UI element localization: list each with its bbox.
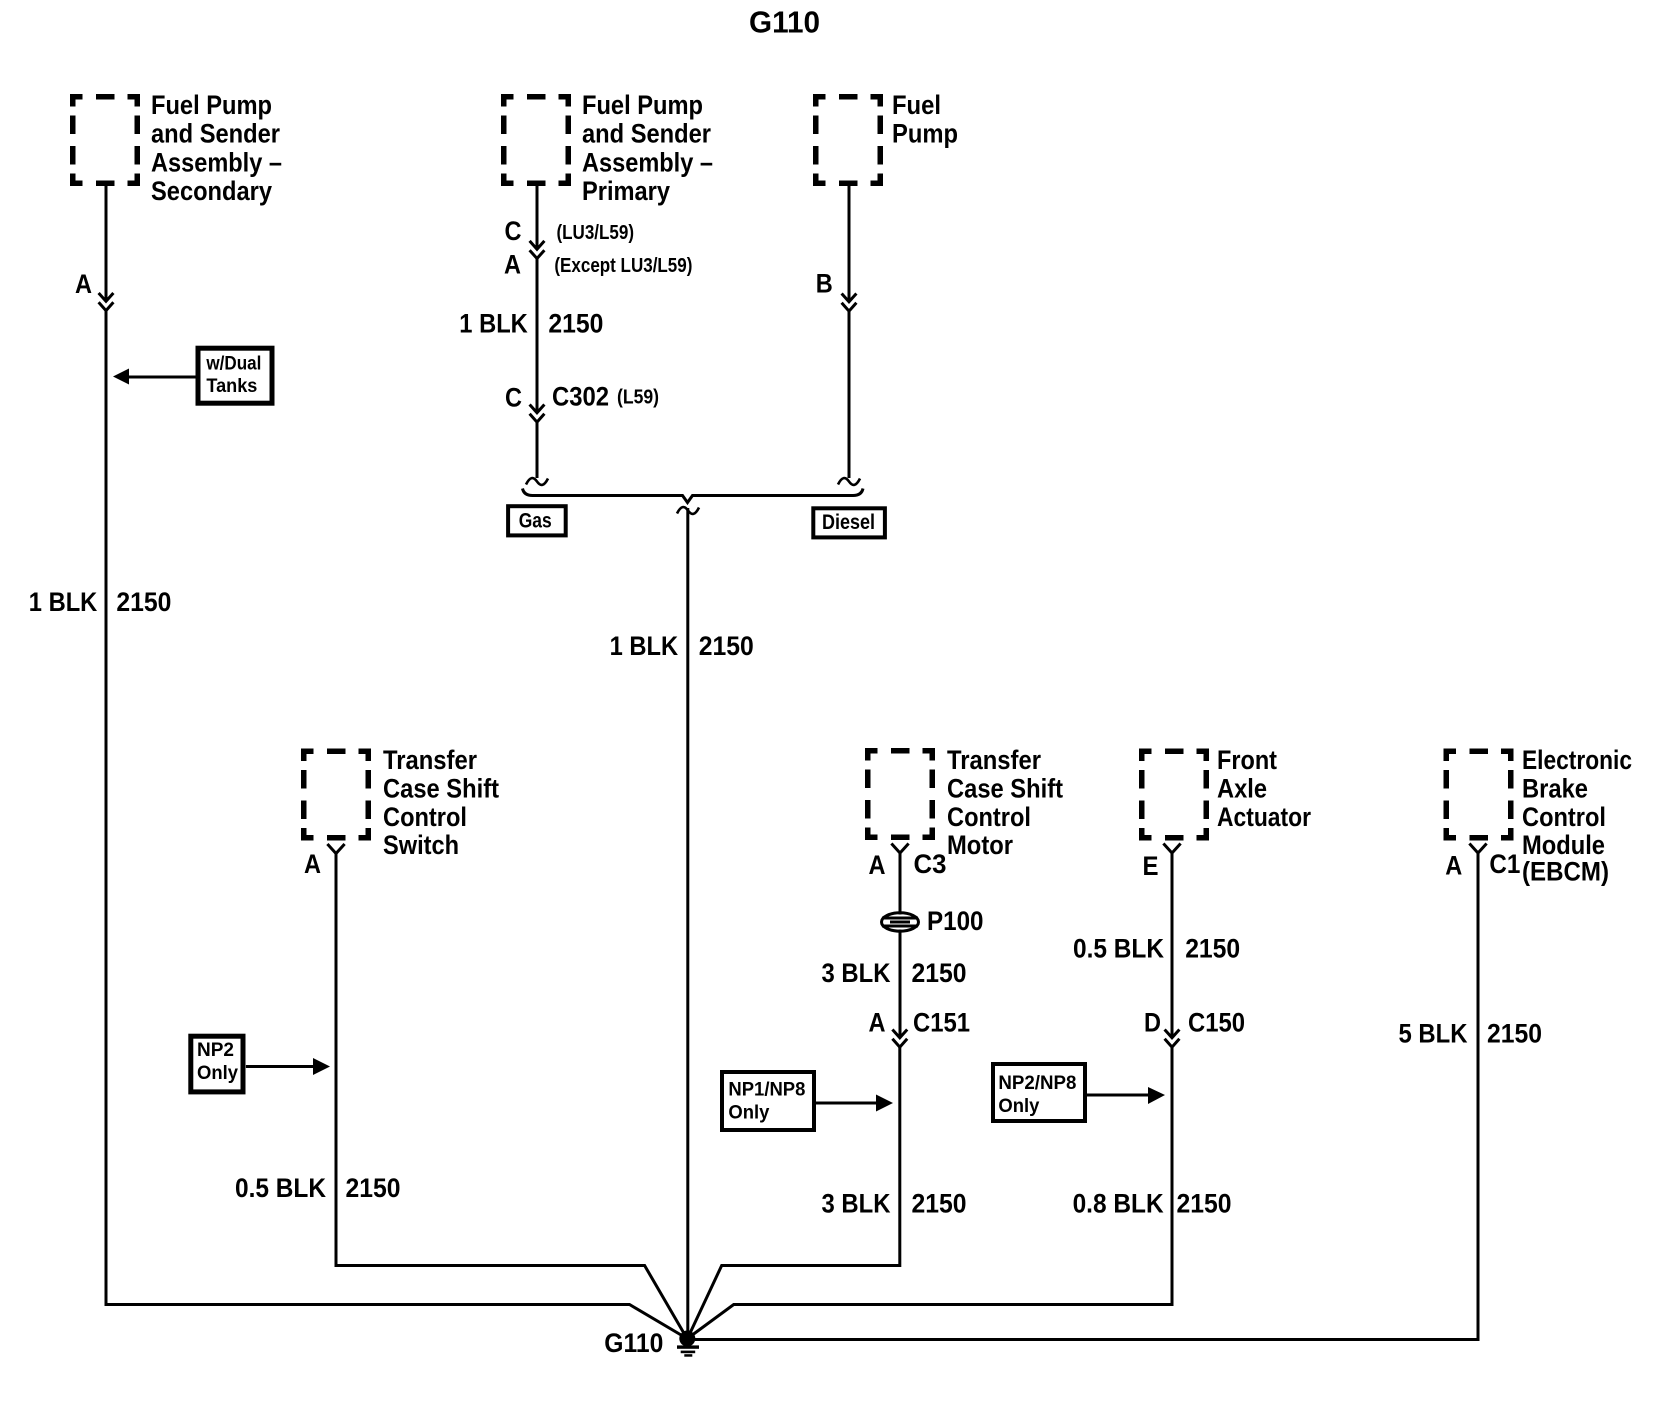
svg-text:1 BLK: 1 BLK [29,587,98,617]
svg-text:and Sender: and Sender [582,119,711,149]
svg-text:(L59): (L59) [617,387,659,409]
connector chevrons on diesel wire [842,294,857,312]
svg-text:Assembly –: Assembly – [582,147,713,177]
transfer case shift control switch (dashed box) [301,749,371,841]
svg-text:Assembly –: Assembly – [151,147,282,177]
svg-text:Axle: Axle [1217,773,1267,803]
wire: primary fuel pump ground upper segment [536,186,539,250]
svg-text:A: A [1445,851,1462,881]
svg-text:w/Dual: w/Dual [206,354,262,375]
svg-text:Motor: Motor [947,830,1013,860]
svg-text:Actuator: Actuator [1217,802,1311,832]
svg-text:3 BLK: 3 BLK [822,958,891,988]
svg-text:1 BLK: 1 BLK [610,631,679,661]
svg-text:0.5 BLK: 0.5 BLK [235,1173,326,1203]
svg-text:(EBCM): (EBCM) [1522,857,1609,887]
svg-text:Only: Only [197,1063,238,1084]
w/Dual Tanks arrow [128,376,196,379]
svg-text:Transfer: Transfer [947,745,1041,775]
wire: switch ground to G110 [336,854,687,1339]
wire: EBCM ground to G110 [695,853,1478,1340]
svg-text:NP2/NP8: NP2/NP8 [998,1073,1076,1094]
svg-text:A: A [304,849,321,879]
electronic brake control module EBCM (dashed box) [1444,749,1514,841]
wire: diesel fuel pump ground terminal B [848,186,851,302]
svg-text:1 BLK: 1 BLK [459,309,528,339]
svg-text:P100: P100 [927,906,984,936]
svg-text:A: A [869,850,886,880]
svg-text:Control: Control [383,802,467,832]
svg-text:and Sender: and Sender [151,119,280,149]
svg-text:(LU3/L59): (LU3/L59) [557,222,635,244]
svg-text:Fuel: Fuel [892,90,941,120]
svg-text:0.8 BLK: 0.8 BLK [1073,1189,1164,1219]
svg-text:0.5 BLK: 0.5 BLK [1073,934,1164,964]
svg-text:Gas: Gas [519,509,552,532]
svg-text:A: A [504,250,521,280]
svg-text:G110: G110 [749,5,820,40]
svg-text:2150: 2150 [548,309,603,339]
svg-text:2150: 2150 [116,587,171,617]
svg-text:C3: C3 [914,849,947,879]
svg-text:Switch: Switch [383,830,459,860]
svg-text:2150: 2150 [1185,934,1240,964]
svg-text:Front: Front [1217,745,1277,775]
svg-text:D: D [1144,1008,1161,1038]
svg-text:Case Shift: Case Shift [383,773,499,803]
svg-text:Control: Control [1522,802,1606,832]
svg-text:Control: Control [947,802,1031,832]
svg-text:B: B [816,269,833,299]
wire: secondary fuel pump ground terminal A to G110 [105,186,108,302]
NP2/NP8 arrow [1087,1094,1150,1097]
wire: motor ground to G110 [899,853,902,915]
svg-text:5 BLK: 5 BLK [1399,1019,1468,1049]
fuel pump and sender assembly - secondary (dashed box) [70,94,140,186]
svg-text:2150: 2150 [346,1173,401,1203]
splice P100 [882,913,919,931]
Gas tag box [508,506,566,535]
NP2 arrow [246,1065,316,1068]
svg-text:3 BLK: 3 BLK [822,1189,891,1219]
NP2/NP8 Only callout box [993,1064,1085,1121]
svg-text:C150: C150 [1188,1008,1245,1038]
svg-text:Brake: Brake [1522,773,1588,803]
NP1/NP8 Only callout box [722,1072,814,1130]
fuel pump and sender assembly - primary (dashed box) [501,94,571,186]
front axle actuator (dashed box) [1139,749,1209,841]
svg-text:G110: G110 [604,1328,663,1358]
svg-text:A: A [869,1008,886,1038]
svg-text:Only: Only [998,1096,1039,1117]
svg-text:Fuel Pump: Fuel Pump [582,90,703,120]
svg-text:(Except LU3/L59): (Except LU3/L59) [554,255,692,277]
svg-text:2150: 2150 [912,958,967,988]
svg-text:Fuel Pump: Fuel Pump [151,90,272,120]
wire: actuator ground to G110 [1171,853,1174,1038]
svg-text:Transfer: Transfer [383,745,477,775]
svg-text:2150: 2150 [912,1189,967,1219]
wire: primary fuel pump ground lower segment [536,259,539,413]
grouping brace gas/diesel [523,489,864,503]
svg-text:Case Shift: Case Shift [947,773,1063,803]
svg-text:Pump: Pump [892,119,958,149]
wire break tilde (gas wire) [526,478,548,485]
svg-text:NP1/NP8: NP1/NP8 [728,1080,805,1101]
svg-text:Only: Only [728,1103,769,1124]
transfer case shift control motor (dashed box) [865,748,935,840]
svg-text:C1: C1 [1489,849,1520,879]
NP1/NP8 arrow [816,1102,879,1105]
svg-text:C302: C302 [552,382,609,412]
connector chevrons C302 [530,405,545,423]
svg-text:Electronic: Electronic [1522,745,1632,775]
svg-text:2150: 2150 [1487,1019,1542,1049]
svg-text:C151: C151 [913,1008,970,1038]
wire break tilde (diesel wire) [838,478,860,485]
svg-text:Diesel: Diesel [822,511,875,534]
svg-text:Tanks: Tanks [206,376,257,397]
connector chevrons on secondary wire [99,293,114,311]
wire: combined ground wire to G110 [686,508,689,1339]
svg-text:2150: 2150 [1177,1189,1232,1219]
svg-text:A: A [75,269,92,299]
svg-text:NP2: NP2 [197,1040,234,1061]
svg-text:E: E [1143,851,1159,881]
connector chevrons C/A (primary) [530,241,545,259]
svg-text:C: C [505,383,522,413]
w/Dual Tanks callout box [198,348,272,403]
svg-text:2150: 2150 [699,631,754,661]
Diesel tag box [813,508,885,537]
NP2 Only callout box [191,1036,243,1092]
svg-text:Primary: Primary [582,176,670,206]
ground symbol G110 [677,1331,699,1357]
wire break tilde (combined ground wire) [677,507,699,514]
svg-text:C: C [505,216,522,246]
svg-text:Secondary: Secondary [151,176,272,206]
fuel pump (dashed box) [813,94,883,186]
